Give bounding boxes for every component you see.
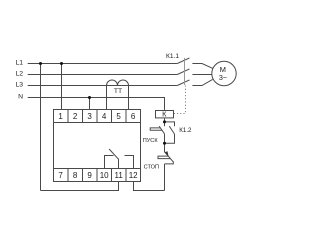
contact K1.2 lower stub — [165, 134, 175, 143]
dotted link horizontal to coil K — [174, 113, 186, 115]
svg-text:5: 5 — [116, 112, 121, 121]
pushbutton PUSK lower stub — [164, 134, 166, 144]
svg-text:7: 7 — [58, 171, 63, 180]
wire motor feed 2 — [192, 74, 211, 76]
svg-text:К: К — [162, 110, 167, 119]
pushbutton PUSK cap — [150, 128, 162, 130]
relay internal contact: fixed post terminal 10 — [105, 156, 114, 169]
wire L1 line — [28, 63, 178, 65]
contact K1.2 top wire — [165, 122, 175, 126]
junction dot coil bottom — [163, 120, 166, 123]
pushbutton STOP blade — [165, 152, 174, 162]
junction dot N terminal3 — [88, 96, 91, 99]
relay internal contact: moving blade from terminal 11 — [109, 149, 118, 169]
wire STOP bottom — [164, 164, 166, 191]
svg-text:1: 1 — [58, 112, 63, 121]
svg-text:L3: L3 — [15, 81, 23, 88]
relay internal contact: fixed post terminal 12 — [125, 156, 134, 169]
terminal row bottom box — [54, 169, 141, 182]
svg-text:12: 12 — [129, 171, 138, 180]
transformer TT left lead — [106, 86, 108, 110]
svg-text:3: 3 — [87, 112, 92, 121]
wire junction to PUSK branch — [164, 122, 166, 126]
wire to STOP button — [164, 143, 166, 152]
junction dot L1 left — [39, 62, 42, 65]
wire N line — [28, 98, 165, 111]
junction dot L1 terminal1 — [60, 62, 63, 65]
contactor K1.1 pole 3 blade — [177, 80, 189, 86]
svg-text:ТТ: ТТ — [114, 88, 122, 95]
wire bottom right run to terminal 12 — [134, 182, 165, 191]
contactor K1.1 pole 1 blade — [177, 58, 189, 64]
transformer TT right lead — [128, 86, 130, 110]
svg-text:10: 10 — [100, 171, 109, 180]
motor M circle — [212, 61, 236, 85]
wire bottom left run to terminal 11 — [41, 182, 119, 191]
terminal row top box — [54, 110, 141, 123]
junction dot above STOP — [163, 142, 166, 145]
wire L1 drop to terminal 1 — [61, 64, 63, 110]
wire motor feed 1 — [192, 64, 212, 69]
wire L3 line — [28, 85, 178, 87]
svg-text:9: 9 — [87, 171, 92, 180]
coil K box — [156, 111, 174, 118]
contactor K1.1 mechanical link (solid part) — [184, 58, 186, 85]
svg-text:2: 2 — [73, 112, 78, 121]
pushbutton STOP cap — [158, 156, 171, 159]
wire coil K bottom — [164, 118, 166, 122]
svg-text:СТОП: СТОП — [144, 164, 159, 170]
svg-text:L2: L2 — [15, 70, 23, 77]
svg-text:N: N — [18, 94, 23, 101]
pushbutton PUSK blade — [159, 126, 164, 134]
pushbutton STOP wedge — [165, 151, 169, 156]
pushbutton STOP fixed hook — [165, 161, 174, 164]
svg-text:К1.1: К1.1 — [166, 53, 179, 60]
wire N drop to terminal 3 — [89, 98, 91, 110]
svg-text:К1.2: К1.2 — [179, 127, 192, 134]
svg-text:6: 6 — [131, 112, 136, 121]
device body right edge — [140, 123, 142, 169]
contactor link dotted to coil — [185, 86, 187, 114]
svg-text:L1: L1 — [15, 60, 23, 67]
wire L2 line — [28, 74, 178, 76]
contact K1.2 blade — [169, 126, 174, 134]
wire motor feed 3 — [192, 79, 212, 85]
contactor K1.1 pole 2 blade — [177, 69, 189, 75]
svg-text:3~: 3~ — [219, 73, 227, 82]
wire L1 drop to control (left side) — [40, 64, 42, 191]
svg-text:ПУСК: ПУСК — [143, 138, 159, 144]
svg-text:8: 8 — [73, 171, 78, 180]
svg-text:11: 11 — [114, 171, 123, 180]
device body left edge — [53, 123, 55, 169]
svg-text:4: 4 — [102, 112, 107, 121]
transformer TT winding arcs — [107, 80, 129, 86]
